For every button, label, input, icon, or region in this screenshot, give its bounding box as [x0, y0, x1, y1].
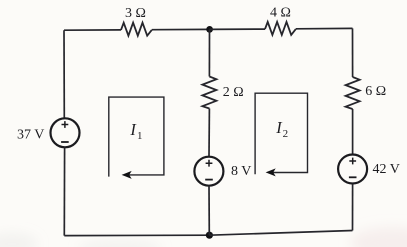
wire top node to 4-ohm resistor — [210, 28, 266, 30]
wire top-left horizontal (left corner to 3-ohm resistor) — [64, 29, 121, 31]
svg-text:8 V: 8 V — [231, 164, 251, 179]
svg-text:37 V: 37 V — [17, 127, 44, 142]
svg-text:3 Ω: 3 Ω — [125, 6, 146, 21]
plus sign of 42V source — [349, 158, 356, 165]
wire 8V source to bottom node — [208, 186, 210, 235]
svg-text:42 V: 42 V — [373, 162, 400, 177]
wire left vertical upper (top-left corner to 37V source) — [63, 30, 65, 118]
resistor R 4-ohm — [265, 22, 296, 35]
scan artifact: faint gray patch bottom-left — [0, 233, 38, 247]
svg-text:1: 1 — [137, 130, 143, 142]
resistor R 6-ohm — [346, 77, 360, 109]
arrowhead of mesh loop I1 (points left) — [122, 171, 132, 179]
wire bottom-right horizontal (node to bottom-right corner) — [209, 231, 352, 236]
node bottom (junction dot) — [206, 232, 213, 239]
minus sign of 42V source — [349, 176, 357, 178]
resistor R 3-ohm — [121, 23, 152, 36]
wire middle vertical upper (top node to 2-ohm resistor) — [208, 29, 210, 76]
wire bottom-left horizontal (corner to bottom node) — [64, 234, 209, 236]
plus sign of 37V source — [62, 121, 69, 128]
resistor R 2-ohm — [202, 77, 216, 109]
svg-text:6 Ω: 6 Ω — [365, 84, 386, 99]
voltage source 37 V (circle) — [51, 118, 80, 147]
wire 2-ohm to 8V source — [208, 109, 210, 157]
voltage source 8 V (circle) — [194, 157, 223, 186]
wire 3-ohm to top node — [152, 28, 210, 30]
mesh loop I2 (open rectangle) — [255, 93, 307, 174]
voltage source 42 V (circle) — [338, 155, 367, 184]
minus sign of 37V source — [61, 141, 69, 143]
wire left vertical lower (37V source to bottom-left corner) — [63, 147, 65, 235]
wire 42V source to bottom-right corner — [352, 184, 354, 231]
wire 6-ohm to 42V source — [352, 109, 354, 154]
mesh loop I1 (open rectangle) — [109, 97, 164, 177]
plus sign of 8V source — [206, 160, 213, 167]
svg-text:4 Ω: 4 Ω — [270, 6, 291, 21]
node top (junction dot) — [206, 26, 213, 33]
arrowhead of mesh loop I2 (points left) — [266, 168, 276, 176]
scan artifact: faint pink haze bottom-right — [350, 227, 407, 247]
minus sign of 8V source — [205, 179, 213, 181]
wire right vertical upper (top-right corner to 6-ohm resistor) — [352, 28, 354, 77]
wire 4-ohm to top-right corner — [296, 27, 353, 29]
svg-text:2 Ω: 2 Ω — [223, 85, 244, 100]
scan artifact: faint gray streak bottom-center — [78, 240, 162, 247]
svg-text:2: 2 — [283, 128, 289, 140]
